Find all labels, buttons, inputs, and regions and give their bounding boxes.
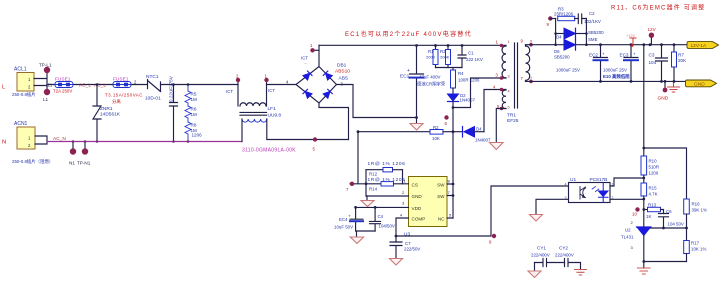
svg-text:10: 10 [632, 212, 637, 217]
svg-text:1N4007: 1N4007 [460, 98, 476, 103]
resistor R1 200K [426, 46, 438, 68]
svg-text:TL431: TL431 [621, 235, 634, 240]
svg-text:10K: 10K [432, 136, 440, 141]
svg-text:CY2: CY2 [559, 246, 568, 251]
svg-text:222 1KV: 222 1KV [466, 57, 483, 62]
wire LF1 to bridge [267, 84, 297, 86]
ground (primary, bridge minus) [410, 118, 423, 131]
resistor R14 1R 1% 1206 [366, 177, 405, 192]
capacitor EC3 1000uF 25V E10 [603, 45, 638, 82]
resistor R12 1R 1% 1206 [366, 161, 405, 177]
resistor R5 1M [185, 85, 197, 107]
wire opto emitter to ground [536, 199, 569, 214]
connector ACL1 [12, 67, 36, 99]
svg-text:R7: R7 [678, 53, 684, 58]
test point 5 [313, 137, 317, 141]
wire divider mid [686, 214, 688, 241]
svg-text:200K: 200K [426, 55, 436, 60]
wire aux winding to D4 [484, 90, 506, 132]
test point 9 [548, 16, 552, 20]
svg-text:1206: 1206 [649, 171, 659, 176]
svg-text:R2: R2 [433, 125, 439, 130]
svg-text:C3: C3 [649, 53, 655, 58]
svg-text:510R: 510R [649, 165, 660, 170]
svg-text:R17: R17 [691, 241, 700, 246]
wire drain node [453, 78, 506, 218]
resistor R8 1M 1206 [185, 122, 202, 142]
capacitor C4 104/50V [370, 207, 395, 231]
power +12V symbol [630, 38, 636, 45]
test point TP-N1 [84, 142, 86, 149]
svg-text:FUSE1: FUSE1 [113, 77, 129, 83]
svg-text:222/400V: 222/400V [531, 253, 550, 258]
transformer pin 9 [529, 43, 533, 47]
svg-text:CY1: CY1 [537, 246, 546, 251]
svg-text:4.7K: 4.7K [649, 192, 658, 197]
svg-text:10uF 50V: 10uF 50V [334, 225, 353, 230]
svg-text:EC4: EC4 [339, 217, 348, 222]
svg-text:~: ~ [305, 62, 307, 66]
diode D4 1N4007 [453, 127, 491, 143]
svg-text:TP-L1: TP-L1 [39, 63, 52, 68]
wire CS node [350, 132, 409, 201]
wire aux winding to ground [496, 109, 506, 143]
svg-text:R1: R1 [428, 49, 434, 54]
svg-text:EC1: EC1 [400, 74, 410, 80]
svg-text:EC2: EC2 [589, 53, 598, 58]
svg-text:R8: R8 [191, 123, 197, 128]
test point ICT 1 [264, 78, 268, 82]
svg-text:SB5200: SB5200 [554, 55, 570, 60]
earth ground (CY2) [575, 270, 587, 276]
test point 7 [350, 182, 354, 186]
svg-text:R16: R16 [692, 202, 701, 207]
capacitor C2 102/1KV [578, 11, 601, 24]
svg-text:ABS10: ABS10 [335, 69, 350, 75]
junction dots top rails [415, 44, 418, 47]
svg-text:R11、C6为EMC器件 可调整: R11、C6为EMC器件 可调整 [611, 4, 705, 12]
resistor R2 10K [358, 125, 454, 141]
wire ACL1 pins to junction [34, 71, 47, 92]
svg-text:ICT: ICT [301, 56, 308, 61]
test point TP-L1 [44, 67, 50, 73]
resistor R16 39K 1% [684, 199, 707, 214]
svg-text:FUSE1: FUSE1 [55, 77, 71, 83]
svg-text:ICT: ICT [268, 88, 275, 93]
test point 10 [635, 207, 639, 211]
capacitor C6 104 50V [659, 209, 684, 228]
svg-text:+12V: +12V [626, 34, 635, 38]
capacitor CY1 222 400V [531, 246, 565, 272]
svg-text:AC_L: AC_L [94, 83, 106, 89]
svg-text:SW: SW [437, 194, 445, 199]
resistor R13 1K [642, 203, 663, 220]
ground (C7) [390, 259, 403, 266]
svg-text:ZNR1: ZNR1 [100, 106, 113, 112]
svg-text:250-0.8插片（阻燃）: 250-0.8插片（阻燃） [12, 158, 53, 165]
svg-text:TP-N1: TP-N1 [77, 161, 91, 166]
svg-text:3: 3 [508, 75, 510, 79]
wire R10 to R15 [643, 175, 645, 183]
svg-text:200K: 200K [440, 55, 450, 60]
test point ICT 1 (bridge) [313, 49, 319, 51]
svg-text:R12: R12 [369, 172, 378, 177]
svg-text:10D-01: 10D-01 [145, 96, 161, 102]
svg-text:E10 高频低阻: E10 高频低阻 [603, 73, 630, 80]
transformer pin 1 [500, 44, 504, 48]
wire opto cathode jog [610, 198, 644, 200]
diode D2 1N4007 [448, 93, 476, 108]
capacitor C1 222 1KV [458, 46, 483, 68]
connector ACN1 [12, 121, 53, 165]
wire DC+ top rail [319, 44, 506, 46]
svg-text:3110-0GMA09LA-00K: 3110-0GMA09LA-00K [242, 148, 296, 154]
svg-text:GND: GND [412, 194, 423, 199]
wire AC_N rail (magenta) [47, 141, 242, 143]
svg-text:N1: N1 [69, 161, 75, 166]
wire opto anode jog [610, 178, 644, 186]
wire AC_L rail [47, 84, 238, 86]
thermistor NTC1 [145, 74, 161, 102]
svg-text:14D561K: 14D561K [100, 112, 121, 118]
test point L1 [44, 89, 50, 95]
svg-text:D6: D6 [554, 49, 560, 54]
svg-text:LF1: LF1 [268, 106, 277, 112]
resistor R6 1M [185, 106, 197, 122]
resistor R3 200K (parallel clamp) [440, 46, 451, 68]
svg-text:AC_L: AC_L [79, 83, 91, 89]
wire 12V sense branch [644, 148, 687, 199]
svg-text:R14: R14 [369, 187, 378, 192]
svg-text:NC: NC [438, 217, 445, 222]
svg-text:10K 1%: 10K 1% [691, 247, 706, 252]
wire snubber cathode drop [585, 19, 587, 45]
svg-text:德浪CR翔宇荣: 德浪CR翔宇荣 [417, 81, 446, 88]
shunt regulator U2 TL431 [621, 220, 651, 250]
svg-text:COMP: COMP [412, 217, 426, 222]
wire ref node [650, 227, 687, 229]
svg-text:R4: R4 [458, 71, 464, 76]
wire VDD pin [356, 206, 409, 208]
svg-text:L1: L1 [43, 97, 49, 102]
svg-text:104 50V: 104 50V [668, 222, 684, 227]
svg-text:SW: SW [437, 183, 445, 188]
svg-text:20K: 20K [678, 58, 687, 63]
svg-text:N: N [2, 140, 6, 146]
test point N1 [72, 142, 74, 149]
svg-text:EF25: EF25 [507, 118, 519, 124]
wire COMP to optocoupler [396, 186, 569, 236]
svg-text:25R/1206: 25R/1206 [554, 12, 574, 17]
wire ACN1 pins [35, 136, 47, 144]
earth ground (secondary GND rail) [668, 81, 680, 92]
fuse FUSE1 (T2A) [53, 77, 73, 94]
wire GND pin [366, 195, 409, 197]
svg-text:4: 4 [565, 183, 567, 187]
test point ICT 2 [236, 78, 240, 82]
svg-text:1000uF 25V: 1000uF 25V [603, 68, 627, 73]
svg-text:T3.15A/250VAC: T3.15A/250VAC [105, 93, 143, 98]
svg-text:104/50V: 104/50V [379, 224, 395, 229]
svg-text:1M: 1M [191, 97, 198, 102]
ground (aux winding) [490, 143, 504, 150]
resistor R17 10K 1% [684, 241, 707, 254]
svg-text:ICT: ICT [226, 89, 233, 94]
svg-text:R10: R10 [649, 159, 658, 164]
svg-text:GND: GND [694, 82, 705, 88]
capacitor C7 222/50V [390, 241, 420, 258]
secondary snubber node wire [526, 44, 688, 46]
svg-text:NTC1: NTC1 [146, 74, 159, 80]
svg-text:222/400V: 222/400V [555, 253, 574, 258]
diode D6 SB5200 (on rail) [554, 40, 576, 60]
wire bridge top to DC rail [318, 45, 320, 66]
svg-text:+: + [407, 68, 410, 74]
transformer pin 3 [500, 76, 504, 80]
ground (opto emitter) [530, 215, 543, 222]
port 12V-1A flag [687, 42, 719, 50]
svg-text:5: 5 [508, 106, 510, 110]
svg-text:PC817B: PC817B [590, 177, 608, 183]
svg-text:R6: R6 [191, 107, 197, 112]
svg-text:1: 1 [508, 40, 510, 44]
svg-text:R3: R3 [440, 49, 446, 54]
IC U3 (yellow controller) [400, 177, 452, 238]
svg-text:1000uF 25V: 1000uF 25V [556, 68, 580, 73]
svg-text:1R@ 1% 1206: 1R@ 1% 1206 [368, 161, 406, 167]
svg-text:12V-1A: 12V-1A [691, 43, 708, 49]
svg-text:EC1也可以用2个22uF 400V电容替代: EC1也可以用2个22uF 400V电容替代 [345, 30, 472, 38]
test point GND [664, 81, 666, 87]
svg-text:12V: 12V [648, 27, 657, 32]
capacitor EC4 10uF 50V [334, 207, 363, 231]
wire 12V feedback chain [643, 45, 645, 156]
port GND flag [686, 80, 717, 88]
svg-text:104: 104 [649, 60, 657, 65]
svg-text:D4: D4 [476, 127, 482, 132]
capacitor C3 104 [649, 45, 668, 82]
test point 6 [444, 115, 448, 119]
svg-text:CS: CS [412, 183, 418, 188]
wire R15 to TL431 [643, 196, 645, 227]
svg-text:R15: R15 [649, 186, 658, 191]
ground (CY1 primary) [528, 271, 541, 278]
common mode choke LF1 UU9.8 [238, 80, 349, 154]
svg-text:R5: R5 [191, 92, 197, 97]
svg-text:C2: C2 [589, 11, 595, 16]
svg-text:VDD: VDD [412, 206, 422, 211]
capacitor CX1 0.22UF275V [169, 75, 178, 141]
wire bridge bottom to AC_N rail [319, 103, 349, 140]
svg-text:222/50V: 222/50V [404, 247, 420, 252]
svg-text:1206: 1206 [192, 133, 203, 138]
wire secondary GND rail [526, 80, 686, 82]
svg-text:U3: U3 [404, 232, 410, 238]
transformer pin 4 [500, 88, 504, 92]
svg-text:C4: C4 [378, 214, 384, 219]
optocoupler U1 PC817B [565, 177, 614, 203]
ground (VDD caps) [350, 237, 363, 244]
svg-text:EC3: EC3 [620, 53, 629, 58]
wire R17 to gnd rail [686, 254, 688, 262]
ground (U3 GND pin) [361, 201, 374, 207]
svg-text:250-0.8插片: 250-0.8插片 [12, 91, 36, 98]
test point 12V [650, 38, 652, 45]
capacitor CY2 222 400V [555, 246, 581, 270]
bridge rectifier DB1 ABS10 [296, 63, 350, 104]
fuse FUSE1 (T3.15A) [105, 77, 143, 106]
svg-text:9: 9 [530, 40, 532, 44]
transformer TR1 EF25 [502, 43, 530, 124]
capacitor EC1 47uF 400V [400, 46, 446, 118]
resistor R15 4.7K [641, 183, 658, 197]
svg-text:+: + [348, 214, 351, 219]
svg-text:ACL1: ACL1 [14, 67, 27, 73]
resistor R10 510R 1206 [641, 156, 659, 176]
transformer pin 7 [529, 80, 533, 84]
svg-text:SB5200: SB5200 [588, 30, 604, 35]
wire bridge right to gnd rail [337, 85, 417, 118]
test point 8 [492, 234, 496, 238]
svg-text:C7: C7 [405, 241, 411, 246]
svg-text:0.22UF275V: 0.22UF275V [169, 75, 174, 102]
resistor R4 100R 1206 [451, 70, 481, 94]
svg-text:分离: 分离 [112, 98, 121, 105]
svg-text:U2: U2 [625, 228, 631, 233]
svg-text:UU9.8: UU9.8 [268, 113, 282, 119]
svg-text:7: 7 [530, 77, 532, 81]
svg-text:1R@ 1% 1206: 1R@ 1% 1206 [368, 177, 406, 183]
svg-text:1M: 1M [191, 112, 198, 117]
svg-text:4: 4 [508, 90, 510, 94]
svg-text:39K 1%: 39K 1% [692, 208, 707, 213]
wire SW pins to drain [447, 184, 453, 218]
svg-text:D4: D4 [556, 35, 562, 40]
resistor R7 20K [672, 45, 688, 82]
svg-text:C1: C1 [468, 51, 474, 56]
capacitor EC2 1000uF 25V [556, 45, 608, 82]
svg-text:T2A 250V: T2A 250V [53, 89, 72, 94]
svg-text:TR1: TR1 [507, 113, 516, 119]
wire snubber bus [436, 68, 463, 71]
resistor R3 25R/1206 (secondary snubber) [554, 7, 578, 21]
svg-text:C6: C6 [666, 209, 672, 214]
diode D5 SB5200 (upper) [556, 28, 605, 42]
svg-text:ACN1: ACN1 [14, 121, 28, 127]
svg-text:R13: R13 [648, 203, 657, 208]
svg-text:+: + [602, 52, 605, 57]
svg-text:47uF 400V: 47uF 400V [419, 75, 441, 80]
svg-text:GND: GND [658, 96, 669, 102]
svg-text:DB1: DB1 [337, 63, 347, 69]
svg-text:SME: SME [588, 37, 598, 42]
svg-text:1K: 1K [646, 214, 651, 219]
earth ground (TL431) [638, 268, 651, 274]
svg-text:U1: U1 [570, 177, 576, 183]
wire COMP pin [396, 218, 409, 242]
svg-text:+: + [633, 52, 636, 57]
varistor ZNR1 [93, 85, 121, 142]
wire EC4/C4 to ground [356, 231, 376, 237]
wire TL431 anode to gnd rail [644, 236, 687, 269]
svg-text:1N4007: 1N4007 [475, 138, 491, 143]
